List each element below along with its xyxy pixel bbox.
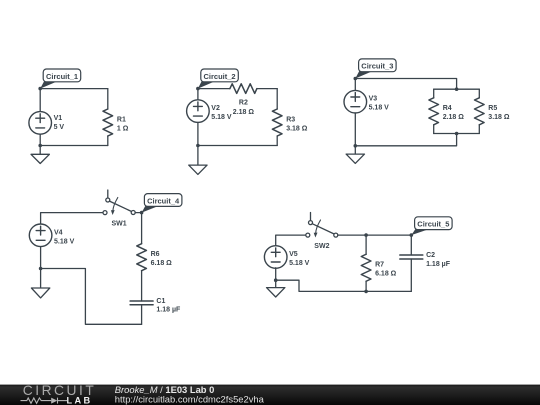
wire R2 right lead	[257, 88, 277, 90]
wire R7 bottom lead	[365, 281, 367, 291]
svg-text:R1: R1	[117, 116, 126, 123]
svg-text:C2: C2	[426, 252, 435, 259]
node A3 junction dot	[354, 77, 358, 81]
wire V1 top lead	[39, 89, 41, 112]
svg-text:R3: R3	[286, 116, 295, 123]
voltage source V4	[29, 224, 52, 247]
wire R7 top lead	[365, 235, 367, 254]
wire SW2 to C2 top	[338, 234, 412, 236]
svg-text:Circuit_2: Circuit_2	[204, 72, 236, 81]
wire top rail circuit 3	[355, 79, 456, 90]
svg-text:SW2: SW2	[314, 243, 329, 250]
svg-text:V1: V1	[54, 115, 63, 122]
node A5 junction dot	[410, 233, 414, 237]
node label Circuit_5	[411, 217, 452, 235]
svg-text:R7: R7	[375, 262, 384, 269]
svg-text:5.18 V: 5.18 V	[211, 114, 232, 121]
capacitor C2	[400, 255, 423, 259]
ground GND3	[346, 146, 364, 164]
node B2 junction dot	[196, 144, 200, 148]
resistor R1	[103, 109, 113, 136]
wire V5 top lead	[276, 235, 306, 246]
svg-text:Circuit_4: Circuit_4	[147, 196, 180, 205]
node B4 junction dot	[39, 267, 43, 271]
wire C2 bottom lead	[410, 259, 412, 291]
wire C1 bottom lead	[141, 305, 143, 325]
wire R5 top lead	[478, 89, 480, 98]
wire R1 top lead	[107, 89, 109, 109]
wire R2 left lead	[198, 88, 230, 90]
wire bottom return circuit 5	[276, 280, 412, 291]
ground GND1	[31, 146, 49, 164]
resistor R3	[272, 109, 282, 136]
svg-text:5.18 V: 5.18 V	[54, 238, 75, 245]
wire V5 bottom lead	[275, 268, 277, 280]
svg-text:R2: R2	[239, 100, 248, 107]
svg-text:3.18 Ω: 3.18 Ω	[488, 114, 510, 121]
ground GND4	[31, 269, 49, 298]
wire V4 top lead	[41, 213, 103, 224]
wire bottom return circuit 4	[41, 269, 142, 325]
node R7 bottom junction dot	[364, 290, 368, 294]
resistor R2	[230, 84, 257, 94]
svg-text:V5: V5	[289, 251, 298, 258]
node label Circuit_4	[142, 194, 182, 213]
wire bottom rail circuit 1	[40, 145, 108, 147]
svg-text:6.18 Ω: 6.18 Ω	[375, 271, 397, 278]
node A1 junction dot	[38, 87, 42, 91]
node B1 junction dot	[38, 144, 42, 148]
wire R5 bottom lead	[478, 125, 480, 134]
wire top rail circuit 1	[40, 88, 108, 90]
svg-text:http://circuitlab.com/cdmc2fs5: http://circuitlab.com/cdmc2fs5e2vha	[115, 394, 265, 405]
svg-text:R4: R4	[443, 105, 452, 112]
wire R6 top lead	[141, 213, 143, 244]
wire R3 top lead	[276, 89, 278, 109]
node B3 junction dot	[354, 144, 358, 148]
svg-text:6.18 Ω: 6.18 Ω	[151, 260, 173, 267]
wire SW1 to node	[135, 212, 141, 214]
svg-text:2.18 Ω: 2.18 Ω	[233, 109, 255, 116]
logo wire with resistor and diode	[21, 398, 68, 404]
switch SW1	[103, 190, 135, 215]
node R7 top junction dot	[364, 233, 368, 237]
svg-text:SW1: SW1	[112, 221, 127, 228]
resistor R7	[361, 254, 371, 281]
wire V3 bottom lead	[354, 113, 356, 146]
node label Circuit_2	[198, 69, 238, 89]
voltage source V1	[29, 112, 52, 135]
resistor R5	[475, 98, 485, 125]
wire V4 bottom lead	[40, 247, 42, 269]
wire V2 top lead	[197, 89, 199, 100]
node B5 junction dot	[274, 278, 278, 282]
svg-text:V3: V3	[369, 95, 378, 102]
node A2 junction dot	[196, 87, 200, 91]
svg-text:V4: V4	[54, 229, 63, 236]
node A4 junction dot	[140, 211, 144, 215]
footer bar	[0, 383, 540, 405]
svg-text:2.18 Ω: 2.18 Ω	[443, 114, 465, 121]
svg-text:5.18 V: 5.18 V	[289, 260, 310, 267]
resistor R6	[137, 244, 147, 271]
svg-text:C1: C1	[156, 298, 165, 305]
wire V1 bottom lead	[39, 134, 41, 145]
svg-text:1.18 µF: 1.18 µF	[156, 307, 181, 314]
voltage source V5	[264, 246, 287, 269]
wire R3 bottom lead	[276, 136, 278, 146]
wire bottom rail circuit 2	[198, 145, 277, 147]
wire parallel top rail	[434, 88, 480, 90]
svg-text:R6: R6	[151, 251, 160, 258]
svg-text:Circuit_1: Circuit_1	[46, 72, 78, 81]
capacitor C1	[130, 301, 153, 305]
wire C2 top lead	[410, 235, 412, 255]
node T3 junction dot	[455, 87, 459, 91]
svg-text:1 Ω: 1 Ω	[117, 125, 129, 132]
wire bottom rail circuit 3	[355, 134, 456, 146]
wire R4 top lead	[433, 89, 435, 98]
wire R6 to C1	[141, 271, 143, 301]
svg-text:Circuit_5: Circuit_5	[417, 220, 449, 229]
node label Circuit_1	[40, 69, 80, 89]
switch SW2	[306, 213, 338, 238]
node U3 junction dot	[455, 132, 459, 136]
ground GND2	[189, 146, 207, 175]
wire V3 top lead	[354, 79, 356, 91]
voltage source V3	[344, 90, 367, 113]
wire R1 bottom lead	[107, 136, 109, 146]
wire R4 bottom lead	[433, 125, 435, 134]
svg-text:R5: R5	[488, 105, 497, 112]
node label Circuit_3	[355, 59, 396, 79]
svg-text:1.18 µF: 1.18 µF	[426, 261, 451, 268]
resistor R4	[429, 98, 439, 125]
wire parallel bottom rail	[434, 133, 480, 135]
svg-text:5.18 V: 5.18 V	[369, 104, 390, 111]
wire V2 bottom lead	[197, 122, 199, 145]
svg-text:5 V: 5 V	[54, 124, 65, 131]
svg-text:LAB: LAB	[67, 395, 93, 405]
svg-text:V2: V2	[211, 105, 220, 112]
voltage source V2	[187, 100, 210, 123]
ground GND5	[267, 280, 285, 297]
svg-text:3.18 Ω: 3.18 Ω	[286, 125, 308, 132]
svg-text:Circuit_3: Circuit_3	[361, 62, 393, 71]
